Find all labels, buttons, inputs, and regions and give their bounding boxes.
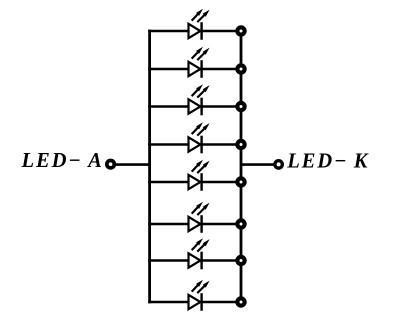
junction dot row 4 [235,139,246,150]
terminal LED-A [105,159,116,170]
wire row 2 cathode [202,68,241,71]
wire row 3 anode [148,105,189,108]
wire row 1 cathode [202,30,241,33]
wire row 4 anode [148,143,189,146]
wire row 5 cathode [202,181,241,184]
junction dot row 5 [235,176,246,187]
LED 6 [189,202,210,233]
LED 5 [189,160,210,191]
LED 7 [189,238,210,269]
junction dot row 1 [235,25,246,36]
wire row 8 cathode [202,301,241,304]
svg-text:LED−K: LED−K [286,151,369,173]
wire row 2 anode [148,68,189,71]
junction dot row 2 [235,63,246,74]
wire row 3 cathode [202,105,241,108]
wire row 5 anode [148,181,189,184]
LED 4 [189,122,210,153]
LED 1 [189,9,210,40]
LED 2 [189,47,210,78]
wire LED-K tap [241,163,274,166]
wire row 6 anode [148,223,189,226]
junction dot row 3 [235,101,246,112]
junction dot row 7 [235,255,246,266]
wire row 1 anode [148,30,189,33]
wire row 7 anode [148,259,189,262]
right bus wire [240,31,243,302]
junction dot row 8 [235,296,246,307]
wire LED-A feed [116,163,150,166]
LED 8 [189,280,210,311]
LED 3 [189,84,210,115]
wire row 7 cathode [202,259,241,262]
wire row 8 anode [148,301,189,304]
junction dot row 6 [235,218,246,229]
svg-text:LED−A: LED−A [21,150,104,172]
wire row 6 cathode [202,223,241,226]
wire row 4 cathode [202,143,241,146]
terminal LED-K [273,159,284,170]
left bus wire [148,30,151,304]
